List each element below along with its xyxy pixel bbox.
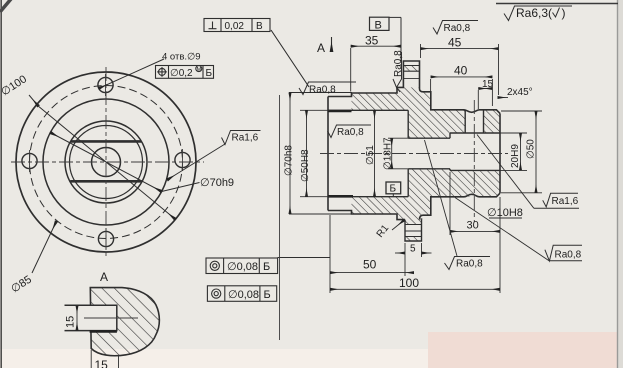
svg-text:Ra0,8: Ra0,8 [337, 127, 364, 138]
svg-text:Ra0,8: Ra0,8 [555, 250, 582, 261]
svg-text:Ra0,8: Ra0,8 [444, 23, 471, 34]
svg-text:4 отв.∅9: 4 отв.∅9 [162, 52, 201, 63]
svg-text:∅18H7: ∅18H7 [383, 137, 394, 170]
svg-text:∅70h9: ∅70h9 [200, 177, 234, 189]
svg-text:∅0,08: ∅0,08 [227, 261, 258, 273]
svg-text:∅10H8: ∅10H8 [487, 207, 523, 219]
svg-text:∅51: ∅51 [365, 145, 376, 165]
svg-text:): ) [562, 6, 566, 20]
svg-text:∅70h8: ∅70h8 [284, 145, 295, 176]
svg-text:0,02: 0,02 [225, 21, 245, 32]
svg-text:2x45°: 2x45° [507, 87, 533, 98]
svg-text:∅0,08: ∅0,08 [228, 289, 259, 301]
svg-text:Б: Б [264, 289, 271, 301]
svg-text:Ra6,3(: Ra6,3( [516, 6, 552, 20]
svg-text:40: 40 [454, 64, 468, 78]
svg-text:Б: Б [206, 68, 213, 79]
svg-text:Б: Б [390, 184, 397, 195]
svg-text:Ra0,8: Ra0,8 [456, 259, 483, 270]
svg-text:∅50: ∅50 [526, 139, 537, 159]
svg-text:A: A [317, 41, 325, 55]
svg-text:20H9: 20H9 [510, 144, 521, 168]
svg-text:50: 50 [363, 258, 377, 272]
svg-text:Ra0,8: Ra0,8 [393, 50, 404, 77]
svg-text:Ra1,6: Ra1,6 [232, 133, 259, 144]
svg-text:15: 15 [482, 79, 494, 90]
svg-text:M: M [197, 67, 202, 73]
svg-text:35: 35 [365, 34, 379, 48]
svg-text:Ra0,8: Ra0,8 [309, 85, 336, 96]
svg-text:100: 100 [399, 276, 419, 290]
svg-text:Б: Б [263, 261, 270, 273]
svg-text:∅50H8: ∅50H8 [300, 149, 311, 182]
svg-text:15: 15 [65, 316, 77, 328]
svg-text:A: A [100, 270, 108, 284]
svg-text:В: В [256, 21, 263, 32]
svg-text:Ra1,6: Ra1,6 [552, 196, 579, 207]
svg-text:15: 15 [95, 358, 109, 368]
svg-text:45: 45 [448, 36, 462, 50]
svg-text:5: 5 [410, 244, 416, 255]
svg-text:В: В [375, 20, 382, 32]
svg-text:∅0,2: ∅0,2 [170, 68, 193, 79]
svg-text:30: 30 [467, 220, 479, 232]
